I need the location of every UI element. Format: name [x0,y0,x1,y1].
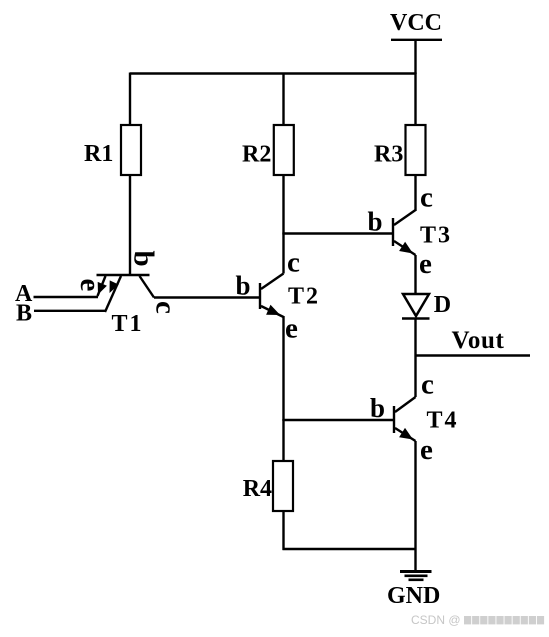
svg-text:b: b [128,251,160,267]
svg-text:c: c [150,301,182,314]
wire bottom [283,548,416,550]
wire junction to T3 base [283,232,393,234]
wire R4 top [282,419,284,462]
wire R2 top [282,73,284,127]
T4 collector lead [395,397,416,412]
svg-text:T3: T3 [420,223,452,249]
wire R3 bottom to T3 collector [414,175,416,211]
wire R3 top [414,73,416,127]
svg-text:c: c [420,182,433,214]
ground bar 3 [409,579,424,582]
T1 emitter 2 [105,276,121,312]
wire diode to Vout junction [414,319,416,397]
wire T2 emitter down [282,316,284,421]
svg-text:T4: T4 [427,408,459,434]
svg-text:R1: R1 [84,141,113,167]
resistor R4 [273,461,293,511]
svg-text:T1: T1 [112,311,144,337]
T2 collector lead [261,274,284,290]
transistor T4 [370,369,459,467]
svg-text:R3: R3 [374,142,403,168]
resistor R3 [406,125,426,175]
svg-text:e: e [74,279,106,292]
wire R1 top [129,73,131,127]
diode D [402,292,451,319]
T3 emitter lead [394,241,416,255]
svg-text:b: b [370,393,385,423]
T4 emitter lead [395,428,416,441]
svg-text:R4: R4 [243,476,272,502]
svg-text:e: e [420,434,433,466]
resistor R1 [121,125,141,175]
svg-text:VCC: VCC [390,10,442,36]
svg-text:T2: T2 [288,284,320,310]
transistor T3 [368,182,453,281]
ground bar 1 [400,570,432,573]
svg-text:Vout: Vout [452,327,505,354]
wire R1 bottom to T1 base [129,175,131,274]
node Vout [416,354,531,356]
diode anode triangle [403,294,429,316]
input A wire [34,296,99,298]
wire T2 collector up [282,233,284,274]
wire T2 emitter to T4 base [283,419,394,421]
T1 emitter 1 [98,276,106,296]
T2 emitter lead [261,306,284,317]
wire R4 bottom [282,510,284,550]
svg-text:CSDN @: CSDN @ [411,613,461,627]
wire top rail [130,72,417,74]
svg-text:GND: GND [387,583,440,609]
diode cathode bar [402,317,430,319]
svg-text:b: b [236,271,251,301]
T1 base bar [97,274,150,276]
svg-text:e: e [285,313,298,345]
wire VCC stem [414,40,416,74]
T3 base bar [392,218,394,246]
svg-text:b: b [368,206,383,236]
wire T4 emitter to ground [414,441,416,571]
T2 base bar [259,283,261,309]
T1 collector lead [140,276,155,298]
VCC power bar [391,39,442,41]
transistor T2 [236,247,321,345]
svg-text:B: B [16,300,32,326]
watermark [411,613,544,627]
ground [387,570,440,609]
wire R2 bottom [282,175,284,235]
T3 collector lead [394,210,416,225]
svg-text:R2: R2 [242,142,271,168]
svg-text:c: c [287,247,300,279]
svg-text:c: c [421,369,434,401]
svg-text:e: e [419,248,432,280]
transistor T1 (multi-emitter, rotated) [74,251,182,338]
wire T3 emitter to diode [414,255,416,295]
wire T1 collector to T2 base [154,296,259,298]
resistor R2 [274,125,294,175]
T4 base bar [393,406,395,433]
ground bar 2 [405,575,428,578]
input B wire [34,310,105,312]
svg-text:D: D [434,292,451,318]
